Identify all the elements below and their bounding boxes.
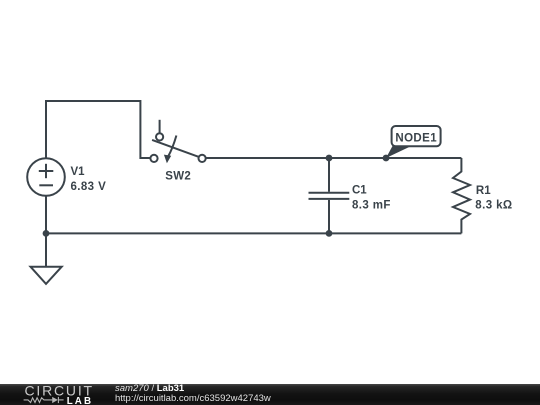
svg-text:LAB: LAB <box>67 396 93 405</box>
svg-text:http://circuitlab.com/c63592w4: http://circuitlab.com/c63592w42743w <box>115 393 271 404</box>
